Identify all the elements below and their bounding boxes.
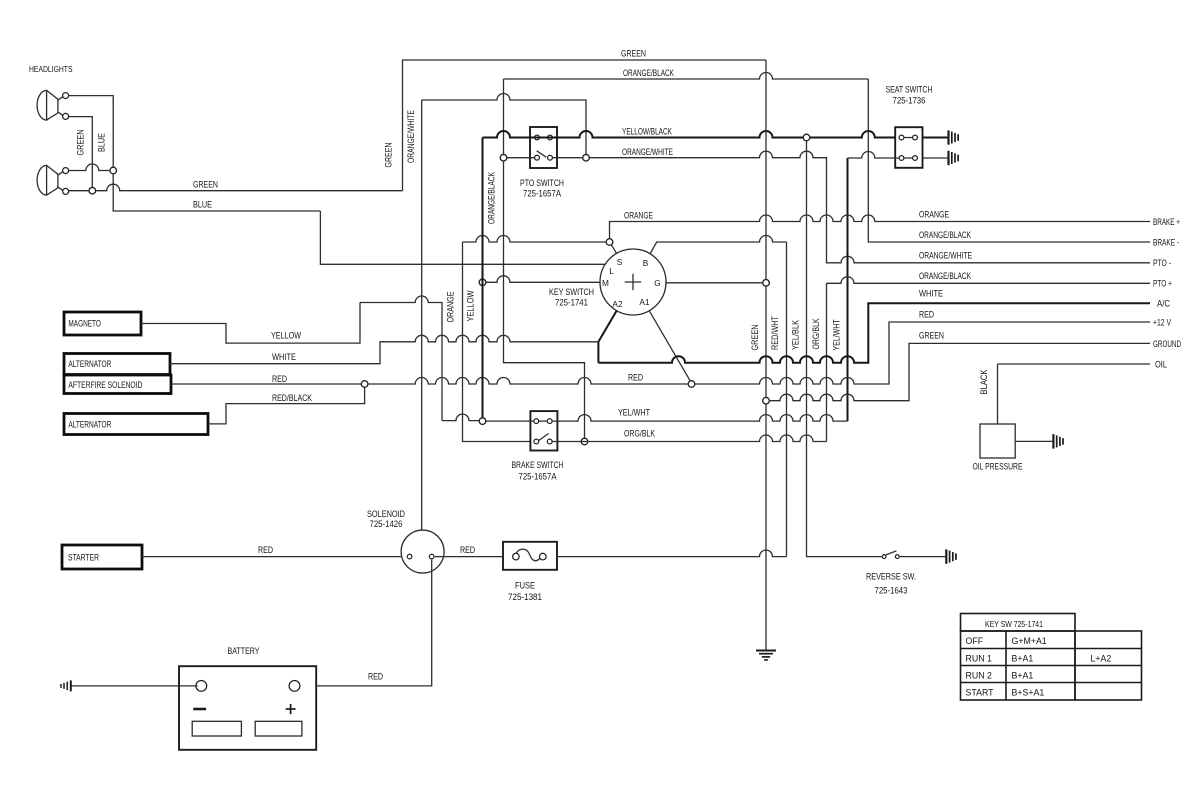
svg-text:S: S: [617, 257, 623, 267]
node orange/white drop junction: [583, 154, 590, 161]
svg-text:MAGNETO: MAGNETO: [68, 319, 101, 329]
key switch circle: [600, 249, 666, 315]
wire red/black from alternator2: [208, 387, 365, 424]
svg-text:SEAT SWITCH: SEAT SWITCH: [886, 85, 933, 95]
svg-text:725-1657A: 725-1657A: [519, 472, 557, 482]
wire key A1 lead: [650, 311, 691, 381]
magneto box: [64, 312, 141, 335]
svg-text:BLUE: BLUE: [193, 200, 212, 210]
svg-text:ORANGE: ORANGE: [919, 209, 949, 219]
pto terminal 1: [535, 135, 540, 140]
wire red from afterfire: [171, 383, 361, 385]
solenoid circle: [401, 530, 444, 573]
wire seat ground top: [923, 137, 948, 139]
solenoid terminal right: [429, 554, 434, 559]
svg-text:GREEN: GREEN: [750, 325, 760, 351]
battery terminal minus: [196, 681, 207, 692]
node yellow M junction: [479, 279, 486, 286]
svg-text:ORANGE: ORANGE: [446, 291, 456, 322]
svg-text:RED/WHT: RED/WHT: [770, 315, 780, 350]
svg-text:725-1741: 725-1741: [555, 298, 588, 308]
svg-text:RUN 2: RUN 2: [966, 671, 993, 681]
wire green riser left: [403, 60, 767, 191]
seat terminal 4: [913, 156, 918, 161]
svg-text:YELLOW: YELLOW: [466, 290, 476, 322]
svg-text:B+S+A1: B+S+A1: [1012, 688, 1045, 698]
ground earth green rail: [756, 650, 776, 652]
svg-text:OFF: OFF: [966, 636, 984, 646]
seat switch box: [895, 127, 922, 168]
wire seat vertical yel/wht: [847, 158, 849, 421]
svg-text:YEL/WHT: YEL/WHT: [618, 407, 651, 417]
ground seat top: [947, 130, 949, 144]
wire seat ground bottom: [923, 157, 948, 159]
wire headlight2 top: [69, 164, 110, 171]
wire org/blk rail: [826, 283, 828, 441]
key switch cross: [625, 281, 641, 283]
node blue junction: [110, 167, 117, 174]
wire orange/white to corner: [589, 151, 1150, 263]
wire red to +12v: [695, 322, 1150, 384]
node green G junction: [763, 280, 770, 287]
wire orange/black top: [504, 73, 869, 80]
svg-text:RED: RED: [368, 672, 383, 682]
svg-text:GREEN: GREEN: [384, 143, 394, 168]
alternator box 2: [64, 414, 208, 435]
wire yellow jog right: [360, 296, 442, 421]
reverse terminal 2: [895, 555, 899, 559]
svg-text:RED: RED: [460, 545, 475, 555]
wire org/blk jog: [504, 161, 585, 438]
svg-text:L: L: [609, 266, 614, 276]
wire green rail: [765, 60, 767, 650]
node orange/black tap circle: [500, 154, 507, 161]
svg-text:RED/BLACK: RED/BLACK: [272, 393, 312, 403]
node red A1 junction: [688, 381, 695, 388]
ground reverse: [945, 549, 947, 563]
wire org/blk right: [552, 435, 826, 441]
pto switch box: [530, 127, 557, 168]
starter box: [62, 545, 142, 569]
ground battery: [70, 680, 72, 691]
wire yellow vertical: [482, 138, 484, 418]
wire green headlight1 bottom: [69, 117, 93, 188]
svg-text:ORANGE/WHITE: ORANGE/WHITE: [622, 147, 673, 157]
wire blue headlight1 top: [69, 96, 114, 168]
node green ground junction: [763, 397, 770, 404]
node yellow/black to yel/blk junction: [803, 134, 810, 141]
svg-text:A2: A2: [612, 299, 623, 309]
ground seat bottom: [947, 151, 949, 165]
oil pressure box: [980, 424, 1015, 458]
wire headlight2 bottom: [69, 190, 89, 192]
svg-text:STARTER: STARTER: [68, 553, 99, 563]
svg-text:GREEN: GREEN: [621, 49, 646, 59]
svg-text:G+M+A1: G+M+A1: [1012, 636, 1047, 646]
svg-text:YELLOW: YELLOW: [271, 331, 302, 341]
svg-text:ORANGE/WHITE: ORANGE/WHITE: [406, 110, 416, 163]
svg-text:YEL/BLK: YEL/BLK: [791, 320, 801, 350]
svg-text:SOLENOID: SOLENOID: [367, 509, 405, 519]
brake terminal 4: [547, 439, 552, 444]
svg-text:BLUE: BLUE: [97, 133, 107, 152]
svg-text:RED: RED: [628, 373, 643, 383]
battery cell 2: [255, 721, 302, 736]
svg-text:+12 V: +12 V: [1153, 317, 1171, 327]
seat interior wires: [899, 137, 918, 139]
svg-text:ORG/BLK: ORG/BLK: [624, 428, 655, 438]
wire orange drop: [610, 215, 1151, 239]
node red junction: [361, 381, 368, 388]
svg-text:ORANGE/WHITE: ORANGE/WHITE: [919, 250, 972, 260]
wire orange/white right: [552, 157, 582, 159]
ground oil: [1052, 434, 1054, 448]
svg-text:KEY SWITCH: KEY SWITCH: [549, 287, 594, 297]
svg-text:725-1657A: 725-1657A: [523, 189, 561, 199]
svg-text:GROUND: GROUND: [1153, 339, 1181, 349]
wire yellow from magneto: [141, 303, 360, 344]
wire blue vertical to corner: [113, 174, 320, 211]
svg-text:PTO -: PTO -: [1153, 258, 1171, 268]
reverse switch blade: [886, 551, 897, 555]
svg-text:RED: RED: [919, 309, 934, 319]
pto terminal 4: [548, 155, 553, 160]
wire key G lead: [666, 282, 763, 284]
svg-text:OIL PRESSURE: OIL PRESSURE: [973, 462, 1023, 472]
headlight lamp 2: [37, 165, 62, 195]
svg-text:ORANGE/BLACK: ORANGE/BLACK: [919, 230, 971, 240]
brake terminal 2: [547, 419, 552, 424]
wire seat bottom lead: [848, 152, 899, 159]
afterfire box: [64, 375, 171, 394]
node orange S junction: [606, 239, 613, 246]
wire orange/white vertical: [421, 100, 423, 530]
svg-text:ORANGE/BLACK: ORANGE/BLACK: [623, 68, 674, 78]
svg-text:RED: RED: [258, 545, 273, 555]
svg-text:HEADLIGHTS: HEADLIGHTS: [29, 64, 73, 74]
wire orange/white jog: [422, 94, 586, 155]
svg-text:BRAKE +: BRAKE +: [1153, 217, 1180, 227]
svg-text:A/C: A/C: [1157, 299, 1171, 309]
wire red/wht rail: [786, 242, 788, 557]
svg-text:725-1426: 725-1426: [370, 519, 403, 529]
wire black to oil box: [997, 364, 999, 424]
svg-text:YELLOW/BLACK: YELLOW/BLACK: [622, 127, 672, 137]
reverse terminal 1: [882, 555, 886, 559]
wire fuse to red/wht: [557, 550, 787, 557]
battery minus sign: [193, 708, 206, 711]
svg-text:ALTERNATOR: ALTERNATOR: [68, 420, 111, 430]
battery box: [179, 666, 316, 750]
pto terminal 2: [548, 135, 553, 140]
svg-text:START: START: [966, 688, 995, 698]
svg-text:BATTERY: BATTERY: [228, 646, 260, 656]
node green junction: [89, 187, 96, 194]
svg-text:725-1643: 725-1643: [875, 586, 908, 596]
wire orange vertical: [463, 242, 535, 442]
solenoid terminal left: [407, 554, 412, 559]
svg-text:KEY SW 725-1741: KEY SW 725-1741: [985, 619, 1043, 629]
wire reverse to ground: [900, 556, 945, 558]
svg-text:YEL/WHT: YEL/WHT: [832, 319, 842, 350]
wire pto left lead: [507, 157, 535, 159]
wire box top: [463, 236, 607, 243]
wire white rail upper: [868, 79, 1150, 242]
svg-text:ORG/BLK: ORG/BLK: [811, 318, 821, 349]
brake terminal 3: [534, 439, 539, 444]
svg-text:WHITE: WHITE: [272, 352, 296, 362]
wire key B lead: [650, 236, 786, 254]
svg-text:M: M: [602, 278, 609, 288]
svg-text:RED: RED: [272, 374, 287, 384]
svg-text:GREEN: GREEN: [193, 179, 218, 189]
seat terminal 1: [899, 135, 904, 140]
wire battery ground: [72, 685, 198, 687]
svg-text:RUN 1: RUN 1: [966, 654, 993, 664]
battery plus sign: [286, 708, 296, 710]
pto switch blade: [537, 151, 547, 157]
key switch table grid: [961, 614, 1076, 632]
svg-text:725-1736: 725-1736: [893, 96, 926, 106]
brake switch blade: [538, 434, 549, 442]
brake switch box: [530, 411, 557, 450]
svg-text:BRAKE SWITCH: BRAKE SWITCH: [512, 460, 564, 470]
wire green branch to ground: [769, 343, 1150, 400]
seat terminal 3: [899, 156, 904, 161]
svg-text:L+A2: L+A2: [1091, 654, 1112, 664]
svg-text:AFTERFIRE SOLENOID: AFTERFIRE SOLENOID: [68, 380, 142, 390]
svg-text:PTO SWITCH: PTO SWITCH: [520, 178, 564, 188]
wire key A2 lead: [598, 311, 616, 363]
wire solenoid to fuse: [435, 556, 503, 558]
svg-text:ALTERNATOR: ALTERNATOR: [68, 359, 111, 369]
wire key M lead: [486, 276, 600, 282]
svg-text:GREEN: GREEN: [919, 331, 944, 341]
svg-text:ORANGE: ORANGE: [624, 211, 653, 221]
wire yellow/black: [483, 131, 899, 138]
svg-text:B+A1: B+A1: [1012, 654, 1034, 664]
svg-text:B: B: [643, 258, 649, 268]
svg-text:ORANGE/BLACK: ORANGE/BLACK: [919, 271, 971, 281]
fuse symbol: [516, 549, 543, 561]
wire org/blk pto+: [827, 277, 1151, 284]
headlight lamp 1: [37, 90, 63, 120]
node yel/wht junction: [479, 418, 486, 425]
svg-text:REVERSE SW.: REVERSE SW.: [866, 572, 916, 582]
wire key S lead: [611, 245, 617, 254]
wire white from alternator: [170, 335, 598, 363]
battery terminal plus: [289, 681, 300, 692]
svg-text:PTO +: PTO +: [1153, 278, 1172, 288]
alternator box 1: [64, 354, 170, 375]
wire oil box ground: [1015, 440, 1052, 442]
battery cell 1: [192, 721, 241, 736]
node org/blk junction: [581, 438, 588, 445]
svg-text:GREEN: GREEN: [76, 130, 86, 156]
seat terminal 2: [913, 135, 918, 140]
wire yellow lower: [442, 414, 479, 421]
wire green horizontal run: [96, 184, 403, 190]
wire oil output: [998, 363, 1151, 365]
wire yel/wht right: [552, 415, 847, 421]
wire yel/blk rail: [807, 141, 882, 557]
svg-text:BLACK: BLACK: [979, 369, 989, 394]
wire red long run: [368, 378, 688, 384]
wire white jog to AC: [598, 303, 1150, 363]
svg-text:G: G: [654, 278, 660, 288]
svg-text:A1: A1: [639, 297, 650, 307]
svg-text:725-1381: 725-1381: [508, 592, 542, 602]
wire orange/black vertical upper: [503, 79, 505, 154]
wire yel/wht left: [486, 420, 534, 422]
svg-text:ORANGE/BLACK: ORANGE/BLACK: [487, 172, 497, 224]
fuse box: [503, 542, 557, 570]
svg-text:BRAKE -: BRAKE -: [1153, 237, 1179, 247]
wire starter to solenoid: [142, 556, 407, 558]
wire solenoid to battery: [298, 560, 432, 686]
svg-text:FUSE: FUSE: [515, 581, 535, 591]
svg-text:WHITE: WHITE: [919, 289, 943, 299]
brake terminal 1: [534, 419, 539, 424]
wire blue horizontal run: [320, 211, 605, 264]
brake interior wire: [534, 420, 552, 422]
svg-text:B+A1: B+A1: [1012, 671, 1034, 681]
svg-text:OIL: OIL: [1155, 360, 1167, 370]
pto terminal 3: [535, 155, 540, 160]
